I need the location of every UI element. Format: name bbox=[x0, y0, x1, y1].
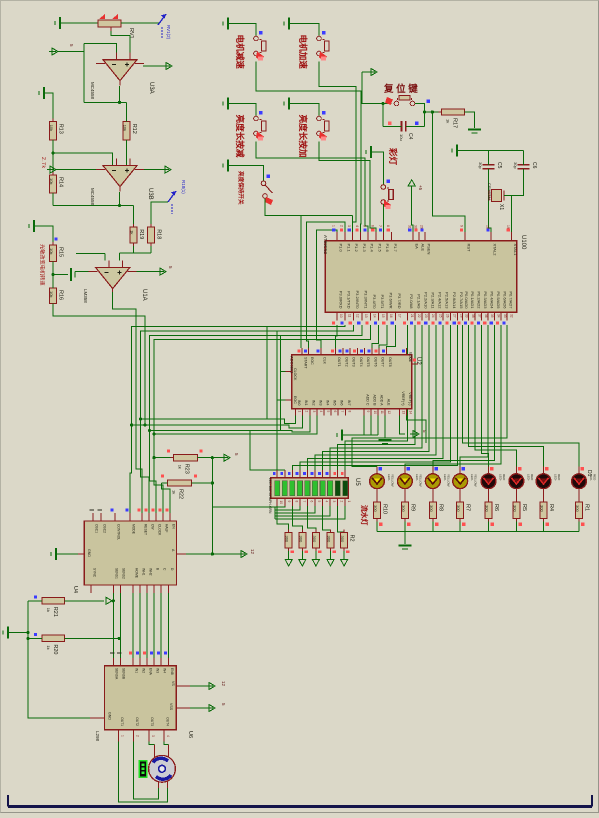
pin P1.0 of U100 bbox=[332, 225, 344, 253]
wire U3:A output from apex bbox=[119, 86, 121, 102]
svg-text:LED-: LED- bbox=[554, 474, 558, 481]
pin OUT2 of U6 bbox=[134, 717, 140, 741]
svg-text:R19: R19 bbox=[138, 229, 144, 239]
push button motor slower bbox=[254, 31, 266, 61]
junction R22 right bbox=[211, 481, 214, 484]
svg-text:OUT2: OUT2 bbox=[344, 357, 348, 367]
wire resistor to arrow bbox=[288, 551, 290, 560]
pin B of U4 bbox=[154, 568, 159, 593]
resistor R20 bbox=[39, 635, 67, 654]
power +5 arrow left of U3:A bbox=[49, 48, 58, 55]
pin P1.3 of U100 bbox=[355, 225, 367, 253]
wire resistor to arrow bbox=[301, 551, 303, 560]
wire U3:B output node bbox=[53, 205, 134, 207]
svg-text:39: 39 bbox=[465, 314, 469, 318]
svg-text:300: 300 bbox=[285, 536, 290, 543]
junction R13 R14 bbox=[51, 151, 54, 154]
pin mark bargraph resistor 3 bbox=[318, 551, 322, 554]
wire P3.1 to U4 bus1 bbox=[130, 325, 345, 521]
svg-text:R23: R23 bbox=[184, 464, 190, 474]
svg-text:P3.3/INT1: P3.3/INT1 bbox=[363, 290, 368, 309]
svg-text:VREF(-): VREF(-) bbox=[408, 392, 412, 405]
svg-text:P2.5/A13: P2.5/A13 bbox=[445, 292, 450, 309]
svg-text:5: 5 bbox=[317, 501, 321, 503]
wire resistor to bus bbox=[459, 522, 461, 532]
svg-text:IN2: IN2 bbox=[142, 668, 146, 673]
svg-text:SENS1: SENS1 bbox=[115, 568, 119, 579]
resistor R12 bbox=[123, 119, 138, 143]
wire ground rail bbox=[8, 632, 28, 634]
svg-text:3: 3 bbox=[347, 225, 351, 227]
pin CW of U4 bbox=[145, 509, 155, 531]
wire OUT3 to motor bbox=[149, 741, 154, 744]
svg-text:32: 32 bbox=[509, 314, 513, 318]
pin EOC of U2 bbox=[304, 348, 314, 365]
pin EOC of U2 right bbox=[409, 352, 419, 364]
resistor R14 bbox=[49, 172, 64, 196]
svg-text:PSEN: PSEN bbox=[427, 244, 432, 255]
pin P1.4 of U100 bbox=[363, 225, 375, 253]
LED D2 yellow bbox=[370, 466, 395, 499]
resistor bargraph 3 bbox=[312, 530, 320, 552]
svg-text:SENSA: SENSA bbox=[115, 668, 119, 680]
wire P2.3 to bargraph bbox=[323, 325, 429, 470]
svg-text:12: 12 bbox=[221, 681, 226, 687]
wire U4 to U6 at x154 bbox=[153, 593, 155, 658]
pin top 8 of bargraph U5 bbox=[326, 470, 330, 478]
op-amp U3:B bbox=[96, 159, 144, 192]
pin SENSB of U6 bbox=[117, 653, 126, 680]
resistor R22 bbox=[165, 480, 195, 499]
wire ground to push button motor faster bbox=[289, 24, 319, 37]
svg-text:12: 12 bbox=[356, 314, 360, 318]
svg-text:P2.3/A11: P2.3/A11 bbox=[431, 292, 436, 309]
pin GND of U4 bbox=[78, 549, 91, 557]
wire down to U2 pin1 bbox=[300, 215, 302, 348]
svg-text:7: 7 bbox=[302, 501, 306, 503]
svg-text:RV1(2): RV1(2) bbox=[166, 25, 171, 40]
svg-text:300: 300 bbox=[456, 505, 461, 512]
svg-text:13: 13 bbox=[364, 314, 368, 318]
svg-text:XTAL1: XTAL1 bbox=[513, 244, 518, 257]
svg-text:300: 300 bbox=[485, 505, 490, 512]
svg-text:R22: R22 bbox=[178, 489, 184, 499]
wire P2.4 to bargraph bbox=[315, 325, 436, 470]
resistor R1 bbox=[575, 499, 590, 522]
svg-text:P1.5: P1.5 bbox=[377, 244, 382, 253]
power +12 arrow U6 bbox=[206, 683, 215, 690]
svg-text:CLOCK: CLOCK bbox=[157, 524, 161, 536]
wire down to U4 pin bbox=[154, 458, 163, 521]
svg-text:9: 9 bbox=[459, 225, 463, 227]
svg-text:MC4558: MC4558 bbox=[90, 82, 95, 100]
wire RV1 wiper to U3:A input bbox=[111, 31, 130, 53]
pin mark bargraph resistor 1 bbox=[291, 551, 295, 554]
pin bottom 8 of bargraph U5 bbox=[330, 498, 336, 506]
wire vertical to U2 eoc bbox=[276, 331, 278, 425]
svg-text:5: 5 bbox=[234, 453, 239, 456]
resistor R17 bbox=[439, 109, 468, 128]
resistor R16 bbox=[49, 285, 64, 307]
svg-text:1k: 1k bbox=[46, 645, 51, 649]
pin P1.7 of U100 bbox=[386, 225, 398, 253]
wire U4 to U6 at x113 bbox=[112, 593, 114, 658]
svg-text:START: START bbox=[303, 357, 307, 369]
pin ENB of U6 bbox=[164, 652, 174, 676]
svg-text:10: 10 bbox=[373, 411, 377, 415]
svg-text:4: 4 bbox=[355, 225, 359, 227]
svg-text:30: 30 bbox=[414, 225, 418, 229]
svg-text:OUT3: OUT3 bbox=[150, 717, 154, 726]
crystal X1 bbox=[487, 183, 511, 210]
IC U2 ADC0808 body bbox=[292, 355, 412, 409]
ground above R15 bbox=[29, 220, 34, 232]
ground of U4 bbox=[51, 548, 56, 560]
wire RV1 left bbox=[60, 22, 98, 24]
pin top 5 of bargraph U5 bbox=[303, 470, 307, 478]
svg-text:10: 10 bbox=[279, 501, 283, 505]
svg-text:C5: C5 bbox=[496, 162, 502, 169]
pin IN7 of U2 bbox=[345, 400, 351, 416]
svg-text:P0.0/AD0: P0.0/AD0 bbox=[464, 291, 469, 309]
wire cap top rail bbox=[457, 149, 524, 151]
svg-text:5: 5 bbox=[69, 44, 74, 47]
pin P3.3/INT1 of U100 bbox=[357, 290, 368, 324]
wire button3 to P1 bbox=[256, 142, 368, 241]
svg-text:RED: RED bbox=[502, 474, 506, 481]
pin C of U4 bbox=[161, 568, 166, 593]
wire U2 clock left bbox=[281, 371, 286, 373]
pin ALE of U2 bbox=[385, 399, 391, 416]
ground for ALE bbox=[379, 440, 392, 444]
wire P3.2 to U4 bus2 bbox=[141, 325, 354, 521]
svg-text:OUT5: OUT5 bbox=[366, 357, 370, 367]
resistor R9 bbox=[401, 499, 416, 522]
svg-text:CW: CW bbox=[150, 524, 154, 530]
svg-text:R6: R6 bbox=[493, 504, 499, 511]
wire bus to ground bbox=[404, 532, 406, 545]
wire bargraph pin9 to resistor bbox=[338, 506, 344, 532]
svg-text:P0.4/AD4: P0.4/AD4 bbox=[490, 291, 495, 309]
svg-text:1: 1 bbox=[332, 225, 336, 227]
svg-text:RED: RED bbox=[593, 474, 597, 481]
wire bus to U2 IN3 bbox=[154, 416, 317, 434]
wire ground to R13 bbox=[44, 93, 53, 119]
svg-text:OUT4: OUT4 bbox=[165, 717, 169, 726]
pin mark R20 bbox=[34, 633, 37, 636]
wire U4 to U6 at x147 bbox=[146, 593, 148, 658]
svg-text:1: 1 bbox=[347, 501, 351, 503]
resistor R6 bbox=[485, 499, 500, 522]
wire U1:A V+ to arrow bbox=[137, 271, 157, 273]
pin OUT4 of U6 bbox=[164, 717, 170, 741]
pin P2.0/A8 of U100 bbox=[403, 294, 414, 324]
svg-text:1k: 1k bbox=[178, 465, 183, 469]
svg-text:R9: R9 bbox=[409, 504, 415, 511]
pin P3.0/RXD of U100 bbox=[332, 291, 343, 325]
svg-text:R2: R2 bbox=[349, 535, 355, 542]
pin P3.4/T0 of U100 bbox=[366, 294, 377, 324]
svg-text:10k: 10k bbox=[49, 291, 54, 297]
pin mark R6 bbox=[491, 523, 495, 527]
wire U1:A plus input bbox=[119, 253, 121, 261]
svg-text:P1.3: P1.3 bbox=[362, 244, 367, 253]
power arrow right of U1:A bbox=[157, 268, 166, 275]
junction reset left bbox=[381, 102, 384, 105]
svg-text:P2.6/A14: P2.6/A14 bbox=[452, 292, 457, 309]
wire junction to U3:B input bbox=[53, 153, 113, 166]
resistor R15 bbox=[49, 242, 64, 265]
svg-text:29: 29 bbox=[420, 225, 424, 229]
svg-text:5: 5 bbox=[363, 225, 367, 227]
pin bottom 7 of bargraph U5 bbox=[323, 498, 329, 506]
pin CONTROL of U4 bbox=[111, 509, 121, 541]
push button reset bbox=[385, 96, 430, 106]
pin INH2 of U4 bbox=[147, 568, 152, 593]
svg-text:EOC: EOC bbox=[293, 396, 297, 404]
pin P1.1 of U100 bbox=[339, 225, 351, 253]
wire R19 bottom bbox=[133, 246, 135, 253]
svg-text:OUT4: OUT4 bbox=[359, 357, 363, 367]
pin ENA of U6 bbox=[143, 652, 153, 676]
interactive pot handle R18(1) bbox=[168, 180, 186, 214]
wire ground to switch bbox=[228, 166, 264, 181]
ground of push button dim decrease bbox=[223, 98, 228, 110]
svg-text:300: 300 bbox=[540, 505, 545, 512]
arrow into SENS1 net bbox=[106, 597, 112, 604]
LED D3 yellow bbox=[398, 466, 423, 499]
svg-text:IN1: IN1 bbox=[135, 668, 139, 673]
pin OE of U2 bbox=[402, 348, 412, 363]
pin OSC1 of U4 bbox=[90, 510, 99, 533]
svg-text:LED-: LED- bbox=[499, 474, 503, 481]
wire arrow to U3:B V- bbox=[56, 169, 96, 171]
wire resistor to bus bbox=[432, 522, 434, 532]
svg-text:OUT1: OUT1 bbox=[337, 357, 341, 367]
svg-text:P1.4: P1.4 bbox=[370, 244, 375, 253]
wire ground to color button bbox=[371, 152, 383, 185]
svg-text:300: 300 bbox=[340, 536, 345, 543]
wire arrow to feedback net bbox=[58, 51, 84, 53]
svg-text:R18(1): R18(1) bbox=[181, 180, 186, 194]
svg-text:U3B: U3B bbox=[147, 188, 153, 200]
wire U1:A output to U4 bbox=[113, 292, 142, 521]
wire U4 to U6 at x161 bbox=[160, 593, 162, 658]
junction rail bbox=[26, 631, 29, 634]
wire C5 to XTAL2 bbox=[489, 169, 492, 241]
svg-text:10u: 10u bbox=[399, 134, 404, 141]
wire bargraph pin10 left bbox=[275, 506, 345, 519]
pin ADD A of U2 bbox=[378, 395, 384, 416]
svg-text:SENS2: SENS2 bbox=[122, 568, 126, 579]
svg-text:IN4: IN4 bbox=[326, 400, 330, 406]
svg-text:P1.7: P1.7 bbox=[393, 244, 398, 253]
wire OUT2 to motor bottom bbox=[134, 741, 159, 799]
pin RESET of U4 bbox=[138, 509, 148, 536]
pin marks R22 bbox=[161, 475, 164, 478]
down arrow terminal 5 bbox=[341, 560, 348, 567]
svg-text:R10: R10 bbox=[382, 504, 388, 514]
svg-text:R14: R14 bbox=[58, 177, 64, 187]
svg-text:SENSB: SENSB bbox=[122, 668, 126, 680]
svg-text:电机加速: 电机加速 bbox=[298, 35, 309, 70]
svg-text:光敏改变电机转速: 光敏改变电机转速 bbox=[39, 244, 47, 286]
svg-text:LED-BARGRAPH-GRN: LED-BARGRAPH-GRN bbox=[268, 478, 272, 514]
svg-text:19: 19 bbox=[506, 225, 510, 229]
svg-text:IN6: IN6 bbox=[340, 400, 344, 406]
svg-text:R17: R17 bbox=[452, 118, 458, 128]
op-amp U3:A bbox=[96, 53, 144, 86]
wire bargraph pin2 stub bbox=[284, 469, 286, 472]
wire bargraph merge vertical bbox=[274, 507, 276, 519]
wire ADD ground rail bbox=[342, 434, 378, 436]
resistor R5 bbox=[512, 499, 527, 522]
svg-text:P0.3/AD3: P0.3/AD3 bbox=[483, 291, 488, 309]
junction IN2 bus bbox=[148, 429, 151, 432]
ground below R17 bbox=[468, 130, 481, 134]
svg-text:26: 26 bbox=[445, 314, 449, 318]
pin top 2 of bargraph U5 bbox=[280, 470, 284, 478]
svg-text:7: 7 bbox=[340, 411, 344, 413]
wire P3.6 to U2 bbox=[379, 325, 387, 348]
svg-text:1: 1 bbox=[121, 735, 125, 737]
pin top 7 of bargraph U5 bbox=[318, 470, 322, 478]
svg-text:OSC1: OSC1 bbox=[94, 524, 98, 533]
svg-text:300: 300 bbox=[512, 505, 517, 512]
svg-text:6: 6 bbox=[370, 225, 374, 227]
pin IN3 of U6 bbox=[150, 652, 160, 674]
svg-text:P3.7/RD: P3.7/RD bbox=[397, 293, 402, 308]
resistor R19 bbox=[130, 224, 145, 246]
wire button2 to P1 bbox=[319, 62, 356, 241]
wire R23 to R22 bbox=[211, 458, 213, 483]
svg-text:300: 300 bbox=[298, 536, 303, 543]
svg-text:2: 2 bbox=[305, 411, 309, 413]
wire RV1 right bbox=[121, 22, 160, 24]
wire switch to P1 bus bbox=[265, 198, 353, 215]
pin D of U4 bbox=[169, 568, 174, 593]
wire R23 left bbox=[154, 457, 171, 459]
pin EA of U100 bbox=[407, 225, 419, 249]
pin P2.5/A13 of U100 bbox=[438, 292, 449, 325]
pin CLOCK of U2 left bbox=[286, 368, 298, 381]
svg-text:EN: EN bbox=[171, 524, 175, 529]
op-amp U1:A bbox=[89, 261, 137, 294]
wire resistor to bus bbox=[515, 522, 517, 532]
wire VSS to arrow bbox=[190, 707, 206, 709]
svg-text:R8: R8 bbox=[437, 504, 443, 511]
svg-text:RED: RED bbox=[557, 474, 561, 481]
wire C4 left up bbox=[382, 104, 384, 127]
svg-text:MODE: MODE bbox=[131, 524, 135, 535]
svg-text:3: 3 bbox=[151, 735, 155, 737]
svg-text:2: 2 bbox=[136, 735, 140, 737]
wire C6 to XTAL1 bbox=[511, 169, 523, 241]
svg-text:LED-: LED- bbox=[470, 474, 474, 481]
switch SW1 bbox=[261, 175, 273, 206]
wire P1.2 stub bbox=[352, 215, 354, 241]
interactive pot handle RV1(2) bbox=[158, 14, 171, 40]
svg-text:C6: C6 bbox=[531, 162, 537, 169]
pin IN4 of U6 bbox=[157, 652, 167, 674]
svg-text:9: 9 bbox=[287, 501, 291, 503]
wire U4 A to arrow bbox=[186, 553, 238, 555]
wire +5 to reset button bbox=[362, 72, 392, 104]
pin XTAL1 of U100 bbox=[506, 225, 518, 256]
pin VS of U6 bbox=[171, 681, 190, 686]
wire node to R19 top bbox=[133, 206, 135, 225]
svg-text:LED-: LED- bbox=[415, 474, 419, 481]
junction R23 right bbox=[211, 456, 214, 459]
svg-text:LED-: LED- bbox=[387, 474, 391, 481]
svg-text:OSC2: OSC2 bbox=[102, 524, 106, 533]
wire P0.2 to LED bbox=[475, 325, 516, 466]
wire U4 to U6 at x140 bbox=[139, 593, 141, 658]
svg-text:IN1: IN1 bbox=[304, 400, 308, 406]
pin SENS2 of U4 bbox=[120, 568, 125, 593]
svg-text:9: 9 bbox=[366, 411, 370, 413]
svg-text:6: 6 bbox=[333, 411, 337, 413]
pin P2.7/A15 of U100 bbox=[453, 292, 464, 325]
LED bargraph U5 body bbox=[271, 478, 348, 498]
wire P2.5 to bargraph bbox=[307, 325, 443, 470]
junction R16 line bbox=[143, 423, 146, 426]
pin ADD C of U2 bbox=[364, 394, 370, 415]
svg-text:亮度长按减: 亮度长按减 bbox=[235, 115, 246, 158]
junction rail R20 bbox=[26, 637, 29, 640]
pin bottom 10 of bargraph U5 bbox=[345, 498, 351, 506]
pin VCC of U6 bbox=[169, 703, 190, 711]
wire R21 right bbox=[64, 600, 104, 602]
power arrow right of U3:A bbox=[163, 63, 172, 70]
svg-text:3: 3 bbox=[332, 501, 336, 503]
pin P2.6/A14 of U100 bbox=[446, 292, 457, 325]
svg-text:INH2: INH2 bbox=[149, 568, 153, 576]
pin P2.4/A12 of U100 bbox=[431, 292, 442, 325]
svg-text:5: 5 bbox=[221, 703, 226, 706]
wire P0.1 to LED bbox=[469, 325, 544, 466]
svg-text:RED: RED bbox=[530, 474, 534, 481]
power +5 arrow EA bbox=[408, 180, 415, 186]
pin IN6 of U2 bbox=[338, 400, 344, 416]
pin IN2 of U2 bbox=[310, 400, 316, 416]
svg-text:5: 5 bbox=[326, 411, 330, 413]
LED D5 yellow bbox=[453, 466, 478, 499]
ground of push button dim increase bbox=[284, 98, 289, 110]
resistor R4 bbox=[540, 499, 555, 522]
push button color light bbox=[381, 180, 393, 210]
svg-text:300: 300 bbox=[327, 536, 332, 543]
wire resistor to bus bbox=[404, 522, 406, 532]
svg-text:LM358: LM358 bbox=[83, 289, 88, 303]
wire R22 left stub bbox=[162, 482, 168, 484]
svg-text:X1: X1 bbox=[498, 204, 504, 210]
pin marks R23 bbox=[167, 450, 170, 453]
svg-text:25: 25 bbox=[438, 314, 442, 318]
svg-text:ENB: ENB bbox=[170, 668, 174, 676]
wire ALE down bbox=[384, 416, 386, 438]
svg-text:VREF(+): VREF(+) bbox=[401, 391, 405, 405]
pin P3.1/TXD of U100 bbox=[340, 291, 351, 325]
wire resistor to arrow bbox=[315, 551, 317, 560]
svg-text:2: 2 bbox=[340, 501, 344, 503]
junction R21 net bbox=[112, 599, 115, 602]
svg-text:300: 300 bbox=[401, 505, 406, 512]
svg-text:1: 1 bbox=[298, 411, 302, 413]
pin HOME of U4 bbox=[133, 568, 138, 593]
svg-text:CRYSTAL: CRYSTAL bbox=[487, 183, 492, 202]
svg-text:R5: R5 bbox=[521, 504, 527, 511]
